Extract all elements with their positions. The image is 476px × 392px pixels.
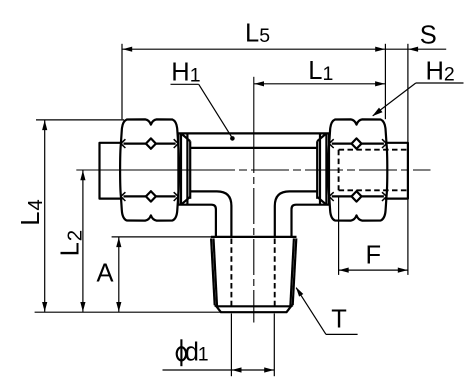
svg-text:S: S <box>420 22 437 50</box>
svg-text:A: A <box>97 259 114 287</box>
svg-text:d1: d1 <box>185 338 209 366</box>
svg-text:T: T <box>331 306 347 334</box>
svg-text:F: F <box>366 241 382 269</box>
